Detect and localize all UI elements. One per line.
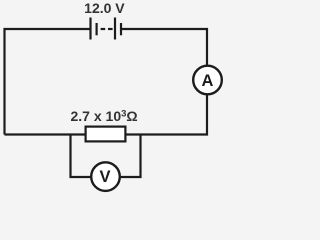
battery B1 dash 1 bbox=[101, 28, 106, 30]
svg-text:V: V bbox=[99, 168, 110, 186]
wire: top-left loop (left wire + top wire to battery) bbox=[5, 29, 91, 135]
battery B1 plate short left bbox=[95, 23, 97, 35]
svg-text:12.0 V: 12.0 V bbox=[84, 0, 125, 16]
wire: top wire from battery to right wire down to ammeter bbox=[121, 29, 207, 66]
svg-text:2.7 x 103Ω: 2.7 x 103Ω bbox=[71, 108, 138, 124]
resistor R1 box bbox=[86, 127, 126, 142]
battery B1 plate long right bbox=[114, 18, 116, 40]
wire: voltmeter branch right (down from bottom wire) bbox=[120, 135, 141, 178]
battery B1 plate long left bbox=[89, 18, 91, 40]
wire: voltmeter branch left (down from bottom wire) bbox=[71, 135, 92, 178]
svg-text:A: A bbox=[201, 72, 213, 90]
voltmeter V1 circle bbox=[91, 162, 120, 191]
battery B1 plate short right bbox=[120, 23, 122, 35]
ammeter A1 circle bbox=[193, 66, 222, 95]
wire: right wire from ammeter to bottom-right corner bbox=[126, 95, 207, 135]
battery B1 dash 2 bbox=[108, 28, 113, 30]
wire: bottom wire from resistor to bottom-left corner bbox=[5, 133, 86, 135]
